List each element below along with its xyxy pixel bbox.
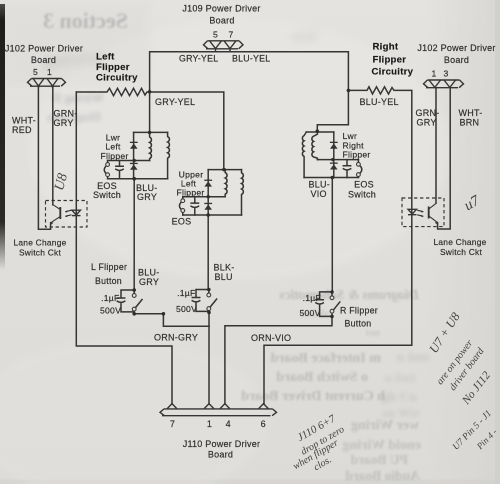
svg-text:6: 6 xyxy=(261,419,266,429)
svg-text:R Flipper: R Flipper xyxy=(340,305,378,315)
svg-text:BLU: BLU xyxy=(215,272,233,282)
svg-text:J110 Power Driver: J110 Power Driver xyxy=(183,439,261,449)
svg-text:GRY: GRY xyxy=(139,277,159,287)
svg-text:PU Board: PU Board xyxy=(350,452,408,467)
svg-text:500V: 500V xyxy=(100,306,121,316)
svg-text:Lane Change: Lane Change xyxy=(13,238,66,248)
svg-text:J109 Power Driver: J109 Power Driver xyxy=(182,4,260,14)
svg-text:.1µF: .1µF xyxy=(303,293,321,303)
svg-text:BLU-YEL: BLU-YEL xyxy=(360,97,399,107)
svg-text:Left: Left xyxy=(96,52,115,63)
svg-text:Switch: Switch xyxy=(93,190,121,200)
svg-text:o Swi: o Swi xyxy=(385,370,415,385)
svg-text:h Current Driver Board: h Current Driver Board xyxy=(241,389,385,404)
svg-text:BLK-: BLK- xyxy=(214,263,235,273)
svg-text:enoid Wiring: enoid Wiring xyxy=(343,438,421,453)
svg-text:Switch: Switch xyxy=(348,189,376,199)
svg-text:Lane Change: Lane Change xyxy=(433,237,486,247)
svg-text:Flipper: Flipper xyxy=(373,55,407,66)
svg-text:4: 4 xyxy=(226,419,231,429)
svg-text:5: 5 xyxy=(213,30,218,40)
svg-text:ORN-GRY: ORN-GRY xyxy=(154,333,198,343)
svg-text:Audio Board: Audio Board xyxy=(345,468,420,483)
svg-text:VIO: VIO xyxy=(311,189,327,199)
svg-text:RED: RED xyxy=(12,125,32,135)
svg-text:.1µF: .1µF xyxy=(177,288,195,298)
svg-text:.1µF: .1µF xyxy=(101,293,119,303)
svg-text:Board: Board xyxy=(444,55,469,65)
svg-text:Button: Button xyxy=(95,276,122,286)
svg-text:3: 3 xyxy=(443,69,448,79)
svg-text:GRY: GRY xyxy=(417,117,437,127)
svg-text:Wir: Wir xyxy=(291,29,318,46)
svg-text:Board: Board xyxy=(208,450,233,460)
svg-text:EOS: EOS xyxy=(172,216,192,226)
svg-text:gh Cu: gh Cu xyxy=(382,389,417,404)
svg-text:1: 1 xyxy=(207,419,212,429)
svg-text:Right: Right xyxy=(373,42,399,53)
svg-text:Circuitry: Circuitry xyxy=(96,73,138,84)
svg-text:WHT-: WHT- xyxy=(459,108,483,118)
svg-text:500V: 500V xyxy=(300,308,321,318)
svg-text:Board: Board xyxy=(209,16,234,26)
svg-text:GRN-: GRN- xyxy=(416,108,440,118)
svg-text:BLU-YEL: BLU-YEL xyxy=(232,54,270,64)
svg-text:J102 Power Driver: J102 Power Driver xyxy=(417,43,495,53)
svg-text:en Wir: en Wir xyxy=(382,405,420,420)
svg-text:Flipper: Flipper xyxy=(343,150,371,160)
svg-text:1: 1 xyxy=(47,67,52,77)
svg-text:GRY: GRY xyxy=(137,192,157,202)
svg-text:Board: Board xyxy=(31,55,56,65)
svg-text:Diagrams & Schematics: Diagrams & Schematics xyxy=(278,288,420,303)
svg-text:wer Wiring: wer Wiring xyxy=(351,418,419,433)
svg-text:Left: Left xyxy=(105,142,121,152)
svg-text:500V: 500V xyxy=(176,304,197,314)
svg-text:net: net xyxy=(365,327,380,339)
svg-text:m Interface Board: m Interface Board xyxy=(270,351,381,366)
svg-text:Flipper: Flipper xyxy=(176,187,204,197)
svg-text:GRY-YEL: GRY-YEL xyxy=(155,97,195,107)
svg-text:Switch Ckt: Switch Ckt xyxy=(19,248,61,258)
svg-text:Lwr: Lwr xyxy=(343,131,358,141)
svg-text:1: 1 xyxy=(431,69,436,79)
svg-text:7: 7 xyxy=(228,30,233,40)
svg-text:L Flipper: L Flipper xyxy=(91,262,127,272)
svg-text:Flipper: Flipper xyxy=(100,151,128,161)
svg-text:n Inte: n Inte xyxy=(397,349,430,364)
svg-text:GRN-: GRN- xyxy=(54,109,78,119)
svg-text:Flipper: Flipper xyxy=(96,62,130,73)
svg-text:BRN: BRN xyxy=(460,117,480,127)
svg-text:Section 3: Section 3 xyxy=(43,8,128,33)
svg-text:EOS: EOS xyxy=(354,180,374,190)
svg-text:o Switch Board: o Switch Board xyxy=(276,370,368,385)
svg-text:J102 Power Driver: J102 Power Driver xyxy=(5,44,83,54)
svg-text:Switch Ckt: Switch Ckt xyxy=(440,247,482,257)
svg-text:7: 7 xyxy=(170,419,175,429)
svg-text:5: 5 xyxy=(33,67,38,77)
svg-text:GRY-YEL: GRY-YEL xyxy=(179,54,218,64)
svg-text:Button: Button xyxy=(345,318,372,328)
svg-text:Circuitry: Circuitry xyxy=(372,66,414,77)
svg-text:GRY: GRY xyxy=(54,118,74,128)
svg-text:ORN-VIO: ORN-VIO xyxy=(251,333,291,343)
